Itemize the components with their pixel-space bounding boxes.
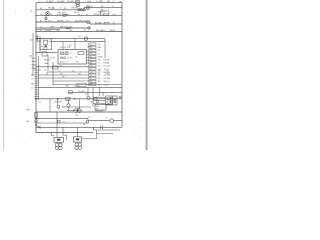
svg-text:RD: RD xyxy=(107,1,111,3)
svg-text:P2-BK: P2-BK xyxy=(45,30,52,32)
svg-text:L2: L2 xyxy=(40,30,42,32)
svg-text:GRN: GRN xyxy=(106,74,111,76)
svg-text:GRN-OR: GRN-OR xyxy=(96,110,104,112)
svg-text:P2: P2 xyxy=(44,70,46,72)
svg-text:N1-BR: N1-BR xyxy=(79,91,86,93)
svg-text:N1: N1 xyxy=(90,53,92,55)
svg-text:WH-L1: WH-L1 xyxy=(104,81,111,83)
svg-text:L2: L2 xyxy=(106,117,108,119)
svg-text:BK-L1 L2: BK-L1 L2 xyxy=(60,62,68,64)
svg-text:L1: L1 xyxy=(72,1,74,3)
svg-text:N1-OR: N1-OR xyxy=(104,66,111,68)
svg-text:N1-GRN: N1-GRN xyxy=(75,20,84,22)
svg-text:VT-WH: VT-WH xyxy=(104,78,111,80)
svg-text:L1: L1 xyxy=(31,88,33,90)
svg-text:P2-YL: P2-YL xyxy=(50,58,56,60)
svg-text:L1: L1 xyxy=(39,1,41,3)
svg-text:L2: L2 xyxy=(72,70,74,72)
svg-text:L2: L2 xyxy=(113,6,115,8)
svg-text:N1: N1 xyxy=(98,74,100,76)
svg-text:L1: L1 xyxy=(40,26,42,28)
svg-text:GRN: GRN xyxy=(56,30,61,32)
svg-text:WH: WH xyxy=(98,47,102,49)
svg-text:GRN: GRN xyxy=(87,1,92,3)
svg-text:P2: P2 xyxy=(90,78,92,80)
svg-text:WH-GY: WH-GY xyxy=(93,14,101,16)
svg-text:WH-WH: WH-WH xyxy=(55,101,63,103)
svg-text:YL: YL xyxy=(90,44,92,46)
svg-text:WH: WH xyxy=(27,109,31,111)
svg-text:GRN: GRN xyxy=(50,26,55,28)
svg-text:L2: L2 xyxy=(90,59,92,61)
svg-text:YL: YL xyxy=(58,70,60,72)
svg-text:L2: L2 xyxy=(113,1,115,3)
svg-text:P2: P2 xyxy=(40,20,42,22)
svg-text:P2: P2 xyxy=(63,107,65,109)
svg-text:GRN: GRN xyxy=(98,56,103,58)
svg-text:RD-WH: RD-WH xyxy=(58,13,66,15)
svg-text:L2: L2 xyxy=(32,58,34,60)
svg-text:L2: L2 xyxy=(88,117,90,119)
svg-text:P2: P2 xyxy=(31,79,33,81)
svg-text:YL: YL xyxy=(32,61,34,63)
svg-text:BR-BK: BR-BK xyxy=(104,63,111,65)
svg-text:YL: YL xyxy=(30,11,32,13)
svg-text:BR-BK: BR-BK xyxy=(57,20,64,22)
svg-text:VT-GY: VT-GY xyxy=(67,58,73,60)
svg-text:RD-RD: RD-RD xyxy=(104,60,111,62)
svg-text:P2: P2 xyxy=(90,69,92,71)
svg-text:OR-RD: OR-RD xyxy=(71,8,79,10)
svg-text:WH-N1: WH-N1 xyxy=(44,60,51,62)
